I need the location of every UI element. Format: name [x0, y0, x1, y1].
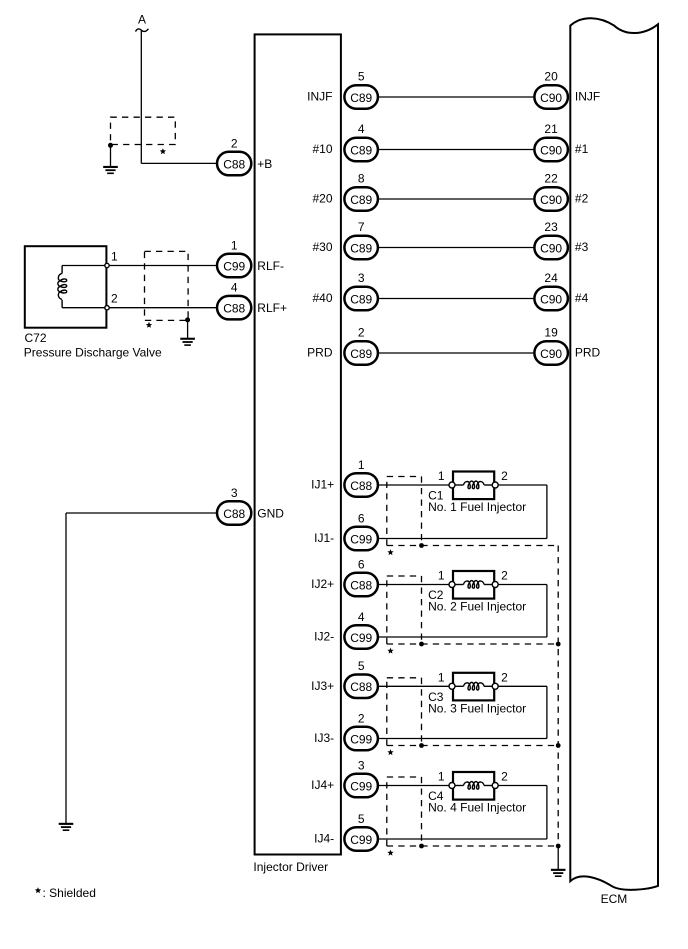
shield junction dot (IJ2-): [419, 642, 424, 647]
svg-text:IJ2-: IJ2-: [314, 630, 334, 644]
injector C2 coil: [455, 584, 464, 586]
shield junction dot (IJ3-): [419, 743, 424, 748]
connector C88 GND: [217, 501, 251, 525]
svg-text:Pressure Discharge Valve: Pressure Discharge Valve: [24, 346, 162, 360]
connector C89 (PRD): [344, 341, 378, 365]
svg-text:1: 1: [438, 770, 445, 784]
ground (GND wire): [59, 823, 74, 825]
svg-text:C99: C99: [350, 732, 372, 746]
svg-text:3: 3: [231, 486, 238, 500]
connector C89 (#20): [344, 187, 378, 211]
svg-text:C90: C90: [540, 143, 562, 157]
connector C99 IJ1-: [344, 527, 378, 551]
connector C88 IJ3+: [344, 675, 378, 699]
svg-text:C88: C88: [350, 479, 372, 493]
wire shield to ground: [110, 145, 112, 166]
C72 Pressure Discharge Valve box: [25, 246, 107, 328]
svg-text:C89: C89: [350, 91, 372, 105]
svg-text:C99: C99: [350, 779, 372, 793]
svg-text:#10: #10: [312, 142, 332, 156]
svg-text:#30: #30: [312, 240, 332, 254]
shield bottom dashed line (IJ4-): [387, 845, 558, 847]
svg-text:24: 24: [544, 271, 558, 285]
wire injector C3 pin2 loop to IJ3-: [498, 685, 547, 687]
star (footnote): [35, 887, 41, 893]
svg-text:No. 2 Fuel Injector: No. 2 Fuel Injector: [428, 600, 526, 614]
svg-text:1: 1: [438, 670, 445, 684]
svg-text:PRD: PRD: [307, 346, 333, 360]
connector C88 +B: [217, 152, 251, 176]
svg-text:C90: C90: [540, 91, 562, 105]
svg-text:4: 4: [231, 281, 238, 295]
svg-text:#20: #20: [312, 192, 332, 206]
svg-text:5: 5: [358, 812, 365, 826]
svg-text:2: 2: [358, 325, 365, 339]
valve terminal 1: [105, 263, 109, 267]
connector C90 (#20): [534, 187, 568, 211]
svg-text:IJ3+: IJ3+: [311, 679, 334, 693]
connector C89 (#10): [344, 138, 378, 162]
svg-text:C89: C89: [350, 347, 372, 361]
connector C99 RLF-: [217, 254, 251, 277]
svg-text:1: 1: [438, 469, 445, 483]
fuel injector C4 body: [453, 772, 494, 800]
svg-text:: Shielded: : Shielded: [43, 886, 96, 900]
injector C1 pin 2: [492, 482, 498, 488]
connector C99 IJ2-: [344, 625, 378, 649]
svg-text:4: 4: [358, 122, 365, 136]
wire C89 to C90 (#20): [379, 198, 533, 200]
svg-text:IJ1-: IJ1-: [314, 531, 334, 545]
connector C90 (PRD): [534, 341, 568, 365]
wire IJ4+ to injector C4 pin1: [379, 785, 449, 787]
shield dashed box (IJ4+/IJ4-): [387, 776, 422, 778]
connector C88 RLF+: [217, 296, 251, 320]
wire valve pin1 to RLF-: [110, 265, 218, 267]
shield bus junction dot (IJ3-): [556, 743, 561, 748]
svg-text:2: 2: [111, 291, 118, 305]
svg-text:C99: C99: [350, 833, 372, 847]
ground (valve shield): [180, 338, 195, 340]
svg-text:No. 4 Fuel Injector: No. 4 Fuel Injector: [428, 801, 526, 815]
wire valve shield to ground: [187, 320, 189, 338]
connector C99 IJ4+: [344, 774, 378, 798]
valve coil L: [61, 266, 63, 274]
injector C2 pin 2: [492, 582, 498, 588]
wire injector C4 pin2 loop to IJ4-: [498, 785, 547, 787]
wire IJ2+ to injector C2 pin1: [379, 584, 449, 586]
connector C99 IJ3-: [344, 727, 378, 751]
shield junction dot (valve): [185, 317, 190, 322]
connector C88 IJ1+: [344, 473, 378, 497]
valve internal wires: [62, 265, 107, 267]
svg-text:No. 1 Fuel Injector: No. 1 Fuel Injector: [428, 500, 526, 514]
svg-text:INJF: INJF: [307, 90, 332, 104]
wire C89 to C90 (#30): [379, 247, 533, 249]
svg-text:C99: C99: [350, 532, 372, 546]
svg-text:IJ2+: IJ2+: [311, 577, 334, 591]
svg-text:C90: C90: [540, 241, 562, 255]
connector C90 (#10): [534, 138, 568, 162]
injector C1 pin 1: [449, 482, 455, 488]
wire from A to +B: [140, 30, 142, 163]
connector C89 (INJF): [344, 85, 378, 109]
svg-text:RLF-: RLF-: [257, 259, 284, 273]
shield junction dot (IJ4-): [419, 844, 424, 849]
injector C3 pin 2: [492, 683, 498, 689]
injector C4 pin 2: [492, 783, 498, 789]
connector C90 (#30): [534, 236, 568, 259]
svg-text:5: 5: [358, 659, 365, 673]
injector C4 coil: [455, 785, 464, 787]
star (shielded marker, IJ1-): [387, 549, 393, 555]
svg-text:5: 5: [358, 69, 365, 83]
wire C89 to C90 (PRD): [379, 352, 533, 354]
svg-text:IJ4+: IJ4+: [311, 778, 334, 792]
svg-text:IJ4-: IJ4-: [314, 832, 334, 846]
connector C90 (INJF): [534, 85, 568, 109]
svg-text:C88: C88: [223, 302, 245, 316]
svg-text:22: 22: [544, 171, 558, 185]
svg-text:C99: C99: [223, 259, 245, 273]
svg-text:23: 23: [544, 220, 558, 234]
wire injector C1 pin2 loop to IJ1-: [498, 484, 547, 486]
svg-text:+B: +B: [257, 157, 272, 171]
svg-text:2: 2: [501, 569, 508, 583]
svg-text:3: 3: [358, 271, 365, 285]
wire valve pin2 to RLF+: [110, 307, 218, 309]
injector C4 pin 1: [449, 783, 455, 789]
ground (A wire shield): [103, 166, 118, 168]
star (shielded marker, valve): [146, 322, 152, 328]
injector C2 pin 1: [449, 582, 455, 588]
svg-text:GND: GND: [257, 506, 284, 520]
injector C1 coil: [455, 484, 464, 486]
svg-text:IJ1+: IJ1+: [311, 478, 334, 492]
node A break squiggle: [136, 29, 149, 32]
svg-text:6: 6: [358, 557, 365, 571]
ground (shield bus): [551, 869, 566, 871]
svg-text:C88: C88: [223, 157, 245, 171]
shield dashed box (IJ2+/IJ2-): [387, 575, 422, 577]
wire GND to ground: [66, 512, 218, 514]
svg-text:#2: #2: [575, 192, 589, 206]
star (shielded marker, IJ2-): [387, 648, 393, 654]
shield bottom dashed line (IJ2-): [387, 643, 558, 645]
svg-text:4: 4: [358, 610, 365, 624]
svg-text:C90: C90: [540, 193, 562, 207]
svg-text:C72: C72: [25, 331, 47, 345]
svg-text:No. 3 Fuel Injector: No. 3 Fuel Injector: [428, 702, 526, 716]
shield junction dot: [108, 143, 113, 148]
svg-text:19: 19: [544, 325, 558, 339]
shield bus junction dot (IJ2-): [556, 642, 561, 647]
shield dashed box (A wire): [111, 117, 176, 144]
svg-text:2: 2: [501, 670, 508, 684]
svg-text:INJF: INJF: [575, 90, 600, 104]
wire IJ1+ to injector C1 pin1: [379, 484, 449, 486]
wire C89 to C90 (#40): [379, 298, 533, 300]
connector C89 (#30): [344, 236, 378, 259]
svg-text:#1: #1: [575, 142, 589, 156]
svg-text:IJ3-: IJ3-: [314, 731, 334, 745]
injector C3 coil: [455, 685, 464, 687]
svg-text:#4: #4: [575, 291, 589, 305]
wire IJ3+ to injector C3 pin1: [379, 685, 449, 687]
wire C89 to C90 (INJF): [379, 96, 533, 98]
shield bottom dashed line (IJ3-): [387, 745, 558, 747]
svg-text:C89: C89: [350, 193, 372, 207]
Injector Driver box: [255, 34, 341, 854]
star (shielded marker, IJ3-): [387, 749, 393, 755]
svg-text:C90: C90: [540, 292, 562, 306]
connector C90 (#40): [534, 287, 568, 311]
svg-text:1: 1: [358, 458, 365, 472]
shield bus junction dot (IJ4-): [556, 844, 561, 849]
svg-text:C89: C89: [350, 241, 372, 255]
shield junction dot (IJ1-): [419, 543, 424, 548]
svg-text:2: 2: [358, 711, 365, 725]
svg-text:C88: C88: [350, 680, 372, 694]
svg-text:C88: C88: [223, 507, 245, 521]
svg-text:C99: C99: [350, 631, 372, 645]
star (shielded marker, IJ4-): [387, 850, 393, 856]
wire shield bus to ground: [557, 846, 559, 869]
svg-text:C90: C90: [540, 347, 562, 361]
injector C3 pin 1: [449, 683, 455, 689]
connector C88 IJ2+: [344, 573, 378, 597]
svg-text:RLF+: RLF+: [257, 301, 287, 315]
valve terminal 2: [105, 306, 109, 310]
svg-text:8: 8: [358, 171, 365, 185]
svg-text:PRD: PRD: [575, 346, 601, 360]
shield dashed box (valve wires): [145, 251, 189, 320]
connector C89 (#40): [344, 287, 378, 311]
svg-text:20: 20: [544, 69, 558, 83]
fuel injector C3 body: [453, 673, 494, 701]
shield bottom dashed line (IJ1-): [387, 545, 558, 547]
svg-text:ECM: ECM: [601, 892, 628, 906]
svg-text:3: 3: [358, 758, 365, 772]
svg-text:A: A: [138, 12, 146, 26]
svg-text:2: 2: [501, 469, 508, 483]
connector C99 IJ4-: [344, 827, 378, 851]
svg-text:C89: C89: [350, 292, 372, 306]
svg-text:#40: #40: [312, 291, 332, 305]
svg-text:C89: C89: [350, 143, 372, 157]
shield dashed box (IJ1+/IJ1-): [387, 476, 422, 478]
svg-text:2: 2: [231, 136, 238, 150]
svg-text:#3: #3: [575, 240, 589, 254]
shield bus dashed line (vertical): [557, 546, 559, 847]
fuel injector C1 body: [453, 472, 494, 500]
svg-text:21: 21: [544, 122, 558, 136]
svg-text:Injector Driver: Injector Driver: [253, 860, 328, 874]
svg-text:1: 1: [111, 250, 118, 264]
ECM box: [570, 18, 658, 890]
wire injector C2 pin2 loop to IJ2-: [498, 584, 547, 586]
star (shielded marker, A wire): [160, 148, 166, 154]
fuel injector C2 body: [453, 571, 494, 599]
svg-text:1: 1: [438, 569, 445, 583]
svg-text:2: 2: [501, 770, 508, 784]
wire C89 to C90 (#10): [379, 149, 533, 151]
svg-text:C88: C88: [350, 578, 372, 592]
svg-text:1: 1: [231, 238, 238, 252]
shield dashed box (IJ3+/IJ3-): [387, 677, 422, 679]
svg-text:7: 7: [358, 220, 365, 234]
svg-text:6: 6: [358, 511, 365, 525]
